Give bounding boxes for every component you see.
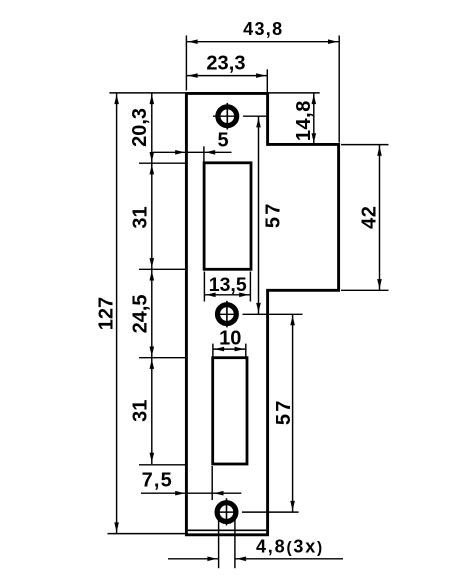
svg-text:7,5: 7,5 <box>142 470 173 492</box>
dimension 24,5 arrow bottom <box>150 347 155 357</box>
plate outline <box>186 93 338 534</box>
dimension 127 extension line top <box>109 92 185 94</box>
dimension 31 upper arrow top <box>150 165 155 175</box>
dimension 13,5 arrow left <box>206 293 216 298</box>
left stack extension line at cutout1 bottom <box>139 268 185 270</box>
hole H3 circle <box>217 503 236 522</box>
dimension 14,8 arrow top <box>312 94 317 104</box>
dimension 42 extension line bottom <box>341 289 389 291</box>
svg-text:57: 57 <box>263 201 285 228</box>
hole H3 horizontal centerline / leader <box>217 511 299 513</box>
dimension 43,8 extension line right <box>338 36 340 143</box>
dimension 23,3 arrow right <box>256 73 266 78</box>
svg-text:31: 31 <box>130 206 152 228</box>
dimension 42 line <box>379 145 381 291</box>
dimension 5 arrow outside left <box>175 150 185 155</box>
left stack extension line at cutout2 bottom <box>139 464 185 466</box>
svg-text:31: 31 <box>130 400 152 422</box>
dimension 43,8 extension line left <box>185 36 187 91</box>
dimension 13,5 extension tick right <box>249 272 251 302</box>
dimension 23,3 arrow left <box>188 73 198 78</box>
dimension 10 arrow right <box>235 347 245 352</box>
dimension 13,5 extension tick left <box>203 272 205 302</box>
dimension 7,5 arrow outside left <box>175 491 185 496</box>
left stack dimension line <box>151 93 153 464</box>
svg-text:57: 57 <box>273 398 295 425</box>
svg-text:24,5: 24,5 <box>130 294 152 333</box>
svg-text:5: 5 <box>217 129 228 151</box>
dimension 10 extension tick right <box>245 344 247 357</box>
dimension 57 lower arrow bottom <box>290 501 295 511</box>
svg-text:10: 10 <box>219 328 241 350</box>
dimension 42 arrow top <box>377 146 382 156</box>
dimension 127 arrow bottom <box>114 522 119 532</box>
dimension 42 arrow bottom <box>377 279 382 289</box>
dimension 7,5 arrow outside right <box>214 491 224 496</box>
dimension 57 lower line <box>292 314 294 512</box>
dimension 42 extension line top <box>341 144 389 146</box>
dimension 4,8 extension line right <box>234 520 236 569</box>
dimension 13,5 line <box>204 294 250 296</box>
dimension 57 upper arrow top <box>256 118 261 128</box>
svg-text:14,8: 14,8 <box>293 100 315 141</box>
svg-text:23,3: 23,3 <box>206 53 245 75</box>
dimension 5 arrow outside right <box>206 150 216 155</box>
hole H2 vertical centerline <box>226 301 228 328</box>
svg-text:20,3: 20,3 <box>129 108 151 147</box>
dimension 14,8 extension line top <box>269 92 320 94</box>
bend line at bottom <box>188 529 266 531</box>
left stack extension line at cutout2 top <box>139 357 185 359</box>
dimension 57 lower arrow top <box>290 316 295 326</box>
dimension 4,8 arrow outside left <box>207 557 217 562</box>
dimension 31 lower arrow top <box>150 359 155 369</box>
dimension 4,8 line left part <box>168 558 219 560</box>
dimension 57 upper line <box>258 116 260 314</box>
dimension 31 upper arrow bottom <box>150 258 155 268</box>
svg-text:42: 42 <box>359 205 381 228</box>
dimension 31 lower arrow bottom <box>150 453 155 463</box>
hole H2 circle <box>218 305 237 324</box>
dimension 23,3 extension line right <box>266 69 268 92</box>
svg-text:13,5: 13,5 <box>209 274 247 296</box>
dimension 10 extension tick left <box>212 344 214 357</box>
dimension 24,5 arrow top <box>150 271 155 281</box>
dimension 14,8 line <box>313 93 315 144</box>
dimension 4,8 extension line left <box>218 520 220 569</box>
dimension 4,8 arrow outside right <box>236 557 246 562</box>
dimension 10 line <box>213 348 246 350</box>
dimension 23,3 line <box>186 75 267 77</box>
dimension 43,8 arrow right <box>328 39 338 44</box>
svg-text:4,8(3x): 4,8(3x) <box>256 537 324 557</box>
hole H2 horizontal centerline / leader <box>216 313 303 315</box>
dimension 5 line <box>153 151 232 153</box>
dimension 20,3 arrow bottom <box>150 152 155 162</box>
dimension 7,5 extension tick <box>211 466 213 500</box>
hole H3 vertical centerline <box>226 498 228 525</box>
dimension 43,8 arrow left <box>188 39 198 44</box>
dimension 10 arrow left <box>214 347 224 352</box>
deadbolt cutout (10x31) <box>213 358 247 464</box>
svg-text:127: 127 <box>96 297 118 330</box>
dimension 43,8 line <box>186 41 339 43</box>
dimension 127 extension line bottom <box>108 533 186 535</box>
hole H1 circle <box>218 107 237 126</box>
svg-text:43,8: 43,8 <box>243 19 283 39</box>
dimension 4,8 line right part <box>235 558 343 560</box>
dimension 7,5 line <box>141 492 241 494</box>
dimension 13,5 arrow right <box>239 293 249 298</box>
dimension 14,8 arrow bottom <box>312 133 317 143</box>
dimension 127 line <box>116 93 118 534</box>
dimension 20,3 arrow top <box>150 94 155 104</box>
dimension 5 extension tick <box>203 146 205 161</box>
dimension 57 upper arrow bottom <box>256 303 261 313</box>
left stack extension line at cutout1 top <box>139 162 185 164</box>
dimension 127 arrow top <box>114 94 119 104</box>
latch cutout (13.5x31) <box>204 163 251 269</box>
hole H1 vertical centerline <box>226 103 228 130</box>
hole H1 horizontal centerline / leader <box>213 115 266 117</box>
